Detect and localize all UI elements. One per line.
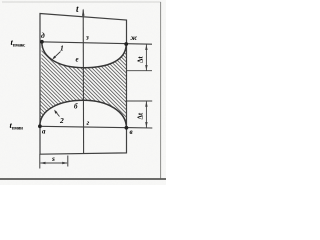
upper delta-t dimension xyxy=(145,44,147,70)
inner bottom line (а - г - в), extended right xyxy=(40,126,153,128)
dot а xyxy=(38,124,42,128)
inner top line (д - з - ж), extended right to tick end xyxy=(40,42,152,44)
curve 1 (upper, д-е-ж) xyxy=(42,42,126,68)
right tick at e-level xyxy=(127,70,153,72)
right tick at b-level xyxy=(126,100,153,102)
axis arrowhead xyxy=(82,9,85,16)
hatched region (bowtie between curves) xyxy=(40,42,127,128)
curve 2 (lower, а-б-в) xyxy=(40,100,127,128)
lower delta-t dimension xyxy=(145,101,147,128)
outer rectangle xyxy=(40,14,127,155)
s dimension arrow xyxy=(41,162,68,164)
dot д xyxy=(40,40,44,44)
dot ж xyxy=(124,42,128,46)
axis t xyxy=(82,10,84,154)
dot в xyxy=(125,126,129,130)
s dimension ticks xyxy=(39,154,41,168)
